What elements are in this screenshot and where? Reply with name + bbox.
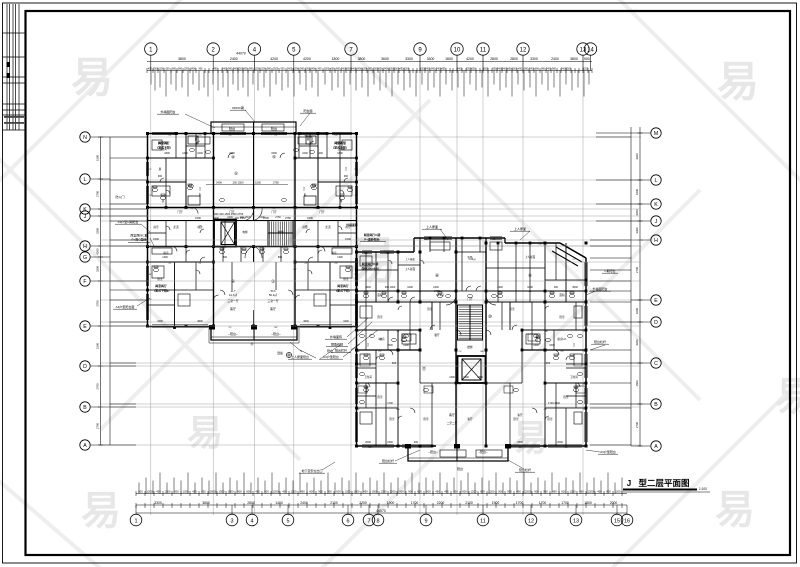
svg-text:200: 200 [414,441,419,444]
svg-text:1200: 1200 [291,489,297,493]
upper block column markers [146,132,358,328]
svg-text:三室一厅: 三室一厅 [227,299,238,303]
svg-text:D: D [83,364,87,370]
svg-text:阳台面: 阳台面 [303,108,312,113]
svg-text:1000: 1000 [302,152,308,155]
svg-text:两室两厅C期: 两室两厅C期 [364,232,381,237]
svg-text:600: 600 [336,489,341,493]
svg-text:A: A [83,443,87,449]
grid lines horizontal [100,137,641,445]
svg-text:外墙面阳台: 外墙面阳台 [160,109,175,114]
svg-text:上人屋面: 上人屋面 [525,255,536,259]
svg-text:阳台: 阳台 [271,126,277,131]
svg-text:2400: 2400 [213,216,219,220]
svg-text:L: L [84,177,87,183]
svg-text:300 1000: 300 1000 [385,286,396,289]
svg-text:450: 450 [516,489,521,493]
lower block windows [355,237,587,447]
svg-text:200 1500: 200 1500 [240,216,251,219]
top witness ticks [151,71,589,97]
svg-text:900: 900 [327,489,332,493]
svg-text:200 1500: 200 1500 [233,181,244,185]
svg-text:900: 900 [498,489,503,493]
svg-text:型二层平面图: 型二层平面图 [638,478,689,488]
svg-text:450: 450 [518,67,523,70]
svg-text:卫生间: 卫生间 [570,375,578,379]
svg-text:900: 900 [534,489,539,493]
svg-text:~阳台~: ~阳台~ [271,331,281,336]
svg-text:E: E [654,298,658,304]
lower block fixtures 2 [358,294,585,403]
bottom grid bubbles [130,514,142,526]
upper block door arcs [192,208,198,214]
svg-text:2100: 2100 [330,501,338,505]
upper block pre-room texts [153,225,351,241]
svg-text:2750: 2750 [275,216,281,219]
svg-text:上人屋面: 上人屋面 [405,267,416,271]
svg-text:卧室: 卧室 [389,417,395,421]
svg-text:600: 600 [480,489,485,493]
svg-text:卫: 卫 [345,168,348,171]
svg-text:1500: 1500 [271,152,277,155]
lower block extra arcs [388,260,392,264]
upper block dense text blobs [154,140,350,293]
svg-text:C期阳台: C期阳台 [604,268,615,273]
svg-text:450: 450 [444,489,449,493]
svg-text:4200: 4200 [635,189,639,195]
bottom witness ticks [139,473,622,494]
svg-text:1500: 1500 [255,181,261,185]
svg-text:E: E [83,324,87,330]
svg-text:易: 易 [512,417,548,458]
svg-text:阳台: 阳台 [457,466,463,471]
svg-text:F: F [83,279,86,285]
svg-text:前室: 前室 [153,225,159,229]
svg-text:800: 800 [223,256,228,259]
svg-text:1200: 1200 [147,489,153,493]
svg-text:1600: 1600 [343,320,349,323]
svg-text:客厅: 客厅 [517,413,523,417]
svg-text:1200: 1200 [158,67,164,70]
svg-text:7: 7 [367,518,370,524]
svg-text:~阳台~: ~阳台~ [228,331,238,336]
svg-text:C: C [654,361,658,367]
left witness ticks to block [110,137,147,445]
svg-text:800: 800 [278,256,283,259]
svg-text:1500: 1500 [549,344,555,347]
svg-text:1000: 1000 [407,286,413,289]
svg-text:易: 易 [715,488,755,532]
svg-text:卧室: 卧室 [377,315,383,319]
grid lines vertical [151,56,583,515]
watermark glyphs [71,54,800,533]
lower block upper-left terrace detail [357,238,587,446]
svg-text:1800: 1800 [337,152,343,155]
svg-text:H: H [83,244,87,250]
svg-text:阳台栏杆: 阳台栏杆 [519,467,531,472]
svg-text:两室两厅: 两室两厅 [155,283,167,288]
svg-text:厨: 厨 [307,137,310,141]
svg-text:13: 13 [573,518,579,524]
svg-text:3: 3 [230,518,233,524]
svg-text:2400: 2400 [433,286,439,289]
svg-text:600: 600 [417,489,422,493]
svg-text:900: 900 [267,67,272,70]
svg-text:卫生间: 卫生间 [364,375,372,379]
svg-text:门: 门 [305,225,308,229]
svg-text:4200: 4200 [303,57,311,61]
svg-text:1400: 1400 [275,501,283,505]
svg-text:4200: 4200 [635,209,639,215]
svg-text:1200: 1200 [182,152,188,155]
upper block top balcony [211,122,296,134]
svg-text:600: 600 [138,489,143,493]
svg-text:H: H [654,238,658,244]
svg-text:600: 600 [309,489,314,493]
svg-text:2700: 2700 [96,383,100,389]
svg-text:600: 600 [426,489,431,493]
lower block closet partitions [360,242,582,457]
svg-text:900: 900 [249,67,254,70]
svg-text:600: 600 [535,67,540,70]
svg-text:锼齿: 锼齿 [277,351,283,355]
svg-text:易: 易 [71,54,113,101]
svg-text:1500: 1500 [273,67,279,70]
svg-text:门厅: 门厅 [229,210,235,214]
right dimension chain [639,127,641,446]
svg-text:2700: 2700 [635,267,639,273]
svg-text:阳台: 阳台 [229,126,235,131]
svg-text:1000: 1000 [197,152,203,155]
svg-text:1800: 1800 [584,501,592,505]
svg-text:卧室: 卧室 [427,307,433,311]
svg-text:2400: 2400 [287,67,293,70]
svg-text:上人屋面: 上人屋面 [514,226,526,231]
svg-text:600: 600 [331,67,336,70]
svg-text:1200: 1200 [570,489,576,493]
svg-text:Ⓑ: Ⓑ [250,341,253,346]
svg-text:9: 9 [424,518,427,524]
svg-text:阴角线脚: 阴角线脚 [331,342,343,347]
svg-text:厨房: 厨房 [557,337,563,341]
svg-text:1300: 1300 [477,376,483,379]
lower block inner dim texts [365,256,578,444]
svg-text:J: J [627,479,631,488]
lower block bath fixtures [363,292,578,392]
svg-text:1500: 1500 [96,343,100,349]
svg-text:2400: 2400 [551,57,559,61]
svg-text:门厅: 门厅 [271,210,277,214]
svg-text:900: 900 [543,489,548,493]
svg-text:1050: 1050 [184,67,190,70]
svg-text:1700: 1700 [411,501,419,505]
upper block stairs [268,221,293,247]
svg-text:900: 900 [237,489,242,493]
upper block more column blobs [146,132,358,329]
svg-text:3300: 3300 [635,227,639,233]
svg-text:1900: 1900 [492,501,500,505]
svg-text:上人屋面阳台: 上人屋面阳台 [291,354,309,359]
svg-text:B: B [654,402,658,408]
svg-text:2400: 2400 [227,216,233,219]
svg-text:1500: 1500 [345,237,351,241]
svg-text:阳台栏杆: 阳台栏杆 [594,339,606,344]
svg-text:M: M [654,131,658,137]
svg-text:600: 600 [561,489,566,493]
svg-text:门厅: 门厅 [177,210,183,214]
svg-text:6450C期: 6450C期 [232,105,244,110]
svg-text:1900: 1900 [387,501,395,505]
svg-text:600: 600 [174,489,179,493]
annotation labels [115,105,615,473]
svg-text:两室两厅: 两室两厅 [337,283,349,288]
svg-text:50.3: 50.3 [271,290,276,293]
svg-text:41.7㎡: 41.7㎡ [229,293,237,297]
svg-text:1500: 1500 [229,152,235,155]
svg-text:1200: 1200 [390,489,396,493]
svg-text:5: 5 [286,518,289,524]
svg-text:卧室: 卧室 [509,307,515,311]
svg-text:门厅: 门厅 [319,210,325,214]
svg-text:门: 门 [199,225,202,229]
svg-text:两室两厅C期: 两室两厅C期 [362,261,379,266]
annotation stack between blocks [323,334,347,359]
svg-text:K: K [83,207,87,213]
svg-text:600: 600 [264,489,269,493]
annotation underlines [113,110,618,473]
svg-text:16: 16 [624,518,630,524]
upper block bath fixtures [152,184,352,272]
svg-text:~阳台~: ~阳台~ [428,449,438,454]
svg-text:1500: 1500 [387,441,393,444]
paired grid lines [100,209,641,407]
svg-text:1200: 1200 [183,489,189,493]
svg-text:450: 450 [300,489,305,493]
svg-text:厨房: 厨房 [379,337,385,341]
svg-text:1700: 1700 [539,501,547,505]
svg-text:1400: 1400 [403,344,409,347]
svg-text:阳台栏杆: 阳台栏杆 [335,348,347,353]
svg-text:450: 450 [201,489,206,493]
svg-text:450: 450 [192,489,197,493]
svg-text:1200: 1200 [615,489,621,493]
upper block pre-rooms beside core [148,221,357,247]
svg-text:900: 900 [408,489,413,493]
svg-text:1800: 1800 [164,152,170,155]
svg-text:1200: 1200 [381,489,387,493]
upper block center dim row [216,181,279,185]
lower block small partitions [366,238,576,446]
upper block closet partitions [152,124,352,306]
upper block bottom balcony [209,327,299,344]
svg-text:3300: 3300 [427,57,435,61]
svg-text:1300: 1300 [449,376,455,379]
left dimension chain [100,137,102,445]
svg-text:1600: 1600 [157,320,163,323]
svg-text:4600: 4600 [197,320,203,323]
svg-text:2000: 2000 [610,501,618,505]
upper block windows [146,132,357,327]
svg-text:1200: 1200 [471,489,477,493]
svg-text:1800: 1800 [332,57,340,61]
svg-text:两室两厅: 两室两厅 [158,140,170,145]
svg-text:1300: 1300 [337,256,343,259]
top grid bubbles [145,43,157,55]
svg-text:900: 900 [392,361,397,365]
svg-text:3600: 3600 [381,57,389,61]
svg-text:600: 600 [166,67,171,70]
svg-text:1500: 1500 [354,489,360,493]
svg-text:卫: 卫 [303,188,306,191]
svg-text:1500: 1500 [307,216,313,220]
svg-text:面砖300×600: 面砖300×600 [361,266,379,271]
svg-text:11: 11 [480,518,486,524]
svg-text:15: 15 [614,518,620,524]
svg-text:2200: 2200 [437,501,445,505]
upper block interior walls [148,134,357,327]
lower block outer walls [357,238,587,446]
svg-text:1800: 1800 [445,57,453,61]
svg-text:4200: 4200 [635,308,639,314]
leader lines [137,110,605,470]
svg-text:1500: 1500 [517,441,523,444]
svg-text:8: 8 [376,518,379,524]
svg-text:450: 450 [435,489,440,493]
svg-text:卧室: 卧室 [563,395,569,399]
svg-text:犹: 犹 [162,199,165,203]
svg-text:1500: 1500 [96,155,100,161]
svg-text:3800: 3800 [202,501,210,505]
svg-text:客厅: 客厅 [449,412,455,417]
svg-text:地下室安全出口: 地下室安全出口 [301,468,322,473]
svg-text:外墙面砖: 外墙面砖 [330,334,342,339]
svg-text:卧室: 卧室 [377,395,383,399]
svg-text:上人屋面: 上人屋面 [405,257,415,261]
title strip [3,4,26,130]
lower block stairs [458,305,483,340]
svg-text:A3户型阳台: A3户型阳台 [323,354,339,359]
svg-text:2000: 2000 [365,441,371,444]
svg-text:1:100: 1:100 [699,487,707,491]
svg-text:1500: 1500 [259,216,265,219]
svg-text:G: G [83,255,87,261]
svg-text:卧室: 卧室 [343,277,349,281]
svg-text:1200: 1200 [489,489,495,493]
svg-text:4200: 4200 [466,57,474,61]
svg-text:1500: 1500 [210,489,216,493]
svg-text:1200: 1200 [260,67,266,70]
svg-text:A3户型阳台: A3户型阳台 [600,449,616,454]
svg-text:1700: 1700 [561,501,569,505]
svg-text:N: N [83,135,87,141]
svg-text:1700: 1700 [516,501,524,505]
svg-text:900: 900 [344,175,349,178]
svg-text:面积: 面积 [559,293,565,297]
upper block corridor texts [158,137,347,220]
svg-text:3300: 3300 [405,57,413,61]
svg-text:卫: 卫 [573,344,576,347]
lower block column markers [355,242,588,448]
right grid bubbles [651,128,661,138]
upper block extra arcs [196,141,200,145]
svg-text:1300: 1300 [162,256,168,259]
svg-text:二室二厅: 二室二厅 [447,421,458,425]
svg-text:450: 450 [552,489,557,493]
svg-text:4200: 4200 [635,153,639,159]
svg-text:3300: 3300 [154,501,162,505]
svg-text:楼梯: 楼梯 [278,230,284,234]
svg-text:900: 900 [606,489,611,493]
svg-text:A: A [654,444,658,450]
upper block lobby door arcs [245,208,254,221]
svg-text:B: B [83,405,87,411]
svg-text:客厅: 客厅 [230,306,236,311]
datum circle symbol [286,352,291,357]
svg-text:1.8: 1.8 [562,337,566,341]
svg-text:1500: 1500 [324,67,330,70]
svg-text:11: 11 [480,47,487,53]
svg-text:2400: 2400 [310,67,316,70]
svg-text:44070: 44070 [236,52,246,56]
svg-text:1200: 1200 [165,489,171,493]
svg-text:走道: 走道 [325,225,331,229]
svg-text:6: 6 [346,518,349,524]
svg-text:1200: 1200 [273,489,279,493]
lower block door arcs [388,297,393,302]
svg-text:2700: 2700 [96,191,100,197]
svg-text:1500: 1500 [153,237,159,241]
svg-text:900: 900 [584,57,590,61]
lower block bottom balcony [408,446,508,462]
svg-text:4200: 4200 [96,248,100,254]
svg-text:900: 900 [318,489,323,493]
svg-text:1400: 1400 [463,376,469,379]
svg-text:10: 10 [454,47,461,53]
top dimension chain [147,62,592,71]
svg-text:外墙面砖: 外墙面砖 [346,222,358,227]
svg-text:900: 900 [318,67,323,70]
svg-text:易: 易 [717,58,759,105]
svg-text:电梯: 电梯 [242,230,248,234]
svg-text:1200: 1200 [317,152,323,155]
svg-text:3300: 3300 [96,228,100,234]
svg-text:450: 450 [363,489,368,493]
svg-text:K: K [654,202,658,208]
left grid bubbles [80,132,90,142]
upper block inner dim texts [157,152,349,323]
svg-text:(复式下层): (复式下层) [157,145,171,150]
svg-text:4600: 4600 [303,320,309,323]
svg-text:A3户型阳台面: A3户型阳台面 [116,304,135,309]
svg-text:1200: 1200 [588,489,594,493]
svg-text:900: 900 [281,67,286,70]
svg-text:面积: 面积 [377,293,383,297]
upper block bath clusters [176,134,327,206]
svg-text:甪: 甪 [340,199,343,203]
lower block bay window [552,243,586,266]
svg-text:餐厅: 餐厅 [434,333,440,337]
svg-text:2000: 2000 [557,441,563,444]
svg-text:D: D [654,320,658,326]
svg-text:3800: 3800 [358,57,366,61]
svg-text:J: J [84,214,87,220]
svg-text:2800: 2800 [247,501,255,505]
svg-text:1500: 1500 [195,216,201,220]
svg-text:2700: 2700 [96,300,100,306]
svg-text:1200: 1200 [293,67,299,70]
svg-text:44070: 44070 [376,509,386,513]
svg-text:900: 900 [546,361,551,365]
